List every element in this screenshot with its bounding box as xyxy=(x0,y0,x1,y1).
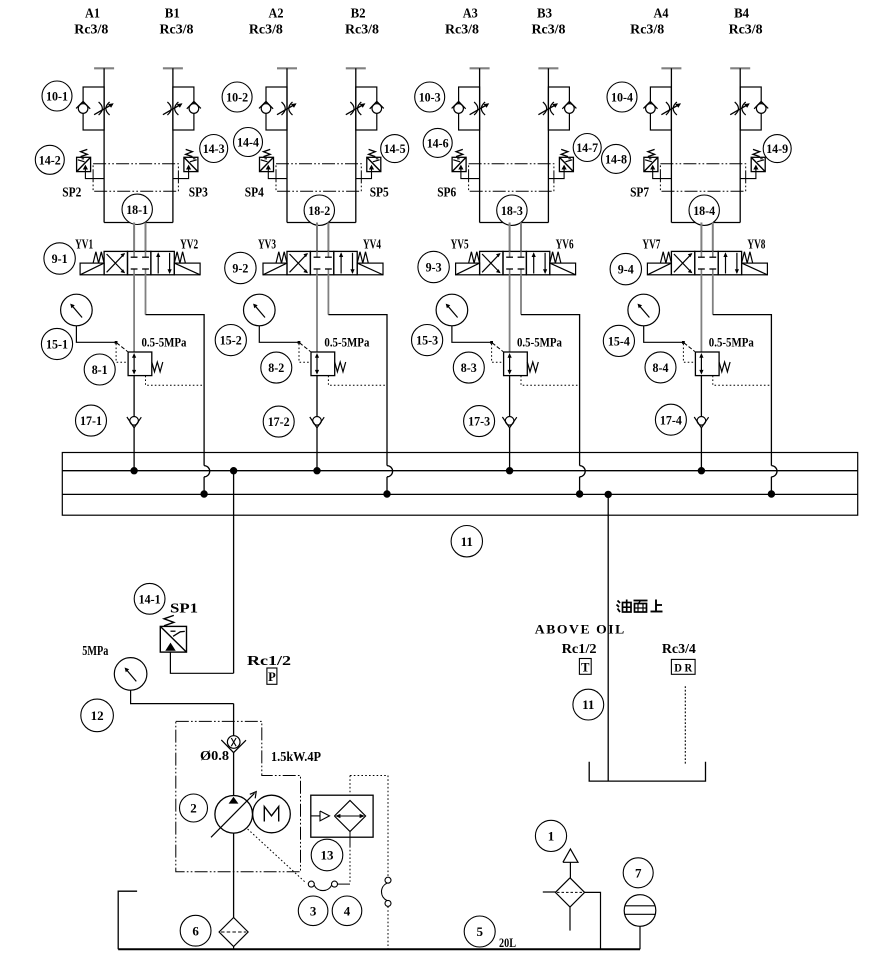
wire port B1 down to block 18-1 xyxy=(172,68,174,222)
tank 5 left wall with lip xyxy=(118,891,137,949)
wire reducing valve 8-4 to check valve 17-4 xyxy=(700,376,702,417)
flow control valve 10-4 pair (B side: throttle + check) xyxy=(730,87,768,130)
wire port A4 down to block 18-4 xyxy=(670,68,672,222)
svg-text:YV8: YV8 xyxy=(747,236,765,251)
svg-text:14-6: 14-6 xyxy=(427,136,449,151)
svg-text:SP1: SP1 xyxy=(170,602,198,617)
variable displacement pump 2 xyxy=(211,792,256,838)
pressure switch 14-5 (SP5) xyxy=(356,149,381,178)
pilot dotted line above block 13 xyxy=(349,776,351,796)
svg-text:Rc1/2: Rc1/2 xyxy=(247,653,291,668)
wire stub B to valve 9-1 xyxy=(145,223,147,252)
wire stub A to valve 9-4 xyxy=(700,223,702,252)
port A3 Rc3/8 label xyxy=(445,7,479,37)
port B2 connection tick xyxy=(346,67,366,69)
svg-text:SP5: SP5 xyxy=(370,185,389,200)
drain pilot line (dotted) from 8-1 to T line xyxy=(146,376,205,386)
svg-text:15-3: 15-3 xyxy=(416,333,438,348)
label circle 8-2 xyxy=(261,352,292,383)
svg-text:8-2: 8-2 xyxy=(268,360,284,375)
svg-text:8-3: 8-3 xyxy=(461,360,477,375)
wire P from valve 9-1 to reducing valve 8-1 xyxy=(133,275,135,352)
pressure switch 14-4 (SP4) xyxy=(260,149,288,178)
wire T crossing jump over P rail xyxy=(387,466,393,477)
label circle 17-1 xyxy=(76,405,107,436)
wire block 18-1 bottom edge xyxy=(104,222,173,224)
port B4 connection tick xyxy=(730,67,750,69)
flow control valve 10-2 pair (B side: throttle + check) xyxy=(346,87,384,130)
svg-text:YV3: YV3 xyxy=(258,236,276,251)
svg-text:Rc3/4: Rc3/4 xyxy=(662,641,696,656)
svg-text:9-2: 9-2 xyxy=(232,261,248,276)
svg-text:B1: B1 xyxy=(165,7,180,22)
wire filler suction stub into tank xyxy=(569,907,571,931)
manifold block 11 outline xyxy=(62,453,857,516)
flow control valve 10-2 (A side: throttle + check) xyxy=(259,87,297,130)
svg-text:17-3: 17-3 xyxy=(468,414,490,429)
orifice check valve (0.8mm) xyxy=(221,736,246,753)
wire check valve 17-3 to pressure rail xyxy=(509,428,511,471)
label circle 10-3 xyxy=(415,82,445,112)
wire port B2 down to block 18-2 xyxy=(355,68,357,222)
label circle 9-1 xyxy=(44,243,75,274)
flow control valve 10-4 (A side: throttle + check) xyxy=(643,87,681,130)
wire T into tank rail junction xyxy=(770,477,772,494)
label circle 14-7 xyxy=(573,134,601,162)
svg-text:18-2: 18-2 xyxy=(308,203,330,218)
svg-text:7: 7 xyxy=(635,865,642,880)
svg-text:Rc3/8: Rc3/8 xyxy=(532,22,566,37)
solenoid directional valve 9-1 body xyxy=(104,251,174,274)
wire T jog to tank rail xyxy=(713,315,772,466)
check valve 17-3 xyxy=(502,417,516,428)
pressure gauge 12 (5MPa) xyxy=(114,658,147,691)
solenoid directional valve 9-4 body xyxy=(671,251,741,274)
junction dot pump supply on P rail xyxy=(231,468,237,474)
port B1 Rc3/8 label xyxy=(160,7,194,37)
check valve 17-1 xyxy=(127,417,141,428)
junction measuring point xyxy=(115,341,118,344)
wire block 18-4 bottom edge xyxy=(671,222,740,224)
svg-text:YV5: YV5 xyxy=(451,236,469,251)
wire stub A to valve 9-1 xyxy=(133,223,135,252)
port B3 Rc3/8 label xyxy=(532,7,566,37)
pressure reducing valve 8-4 0.5-5MPa xyxy=(695,352,730,376)
label circle 10-2 xyxy=(222,82,252,112)
flow control valve 10-1 (A side: throttle + check) xyxy=(76,87,114,130)
label circle 5 xyxy=(464,916,495,947)
label circle 9-2 xyxy=(225,252,256,283)
circulation valve block 13 xyxy=(311,795,373,837)
port B3 connection tick xyxy=(538,67,558,69)
label circle 6 xyxy=(180,915,211,946)
svg-text:SP6: SP6 xyxy=(437,185,456,200)
label circle 3 xyxy=(298,896,328,926)
wire gauge 15-2 to measuring point xyxy=(259,326,299,343)
pressure reducing valve 8-3 0.5-5MPa xyxy=(504,352,539,376)
svg-text:A1: A1 xyxy=(85,7,100,22)
svg-text:1: 1 xyxy=(548,829,555,844)
junction measuring point xyxy=(682,341,685,344)
label circle 2 xyxy=(180,794,208,822)
pilot line measuring point to reducing valve 8-4 xyxy=(684,343,695,352)
pressure switch 14-3 (SP3) xyxy=(173,149,198,178)
pressure switch 14-2 (SP2) xyxy=(77,149,105,178)
wire T jog to tank rail xyxy=(146,315,205,466)
flow control valve 10-3 pair (B side: throttle + check) xyxy=(538,87,576,130)
svg-text:Rc3/8: Rc3/8 xyxy=(160,22,194,37)
pressure gauge 15-1 xyxy=(61,294,93,326)
svg-text:2: 2 xyxy=(190,801,197,816)
label circle 18-4 xyxy=(689,195,719,225)
wire port A1 down to block 18-1 xyxy=(103,68,105,222)
svg-text:1.5kW.4P: 1.5kW.4P xyxy=(271,749,321,764)
wire T into tank rail junction xyxy=(203,477,205,494)
wire block 18-2 bottom edge xyxy=(287,222,356,224)
pilot line (dotted) gauge to valve left side xyxy=(683,344,695,363)
svg-text:Rc3/8: Rc3/8 xyxy=(445,22,479,37)
suction filter 6 xyxy=(219,918,248,947)
svg-text:17-4: 17-4 xyxy=(660,412,682,427)
label circle 18-2 xyxy=(304,195,334,225)
svg-text:18-1: 18-1 xyxy=(126,202,148,217)
label circle 7 xyxy=(623,858,653,888)
manifold block boundary (dash-dot) for 18-4 xyxy=(660,164,745,192)
label circle 14-4 xyxy=(234,128,263,157)
label circle 10-1 xyxy=(42,81,72,111)
svg-text:SP2: SP2 xyxy=(62,185,81,200)
pilot dotted line block 13 to switch level xyxy=(349,846,351,884)
svg-text:8-4: 8-4 xyxy=(653,360,669,375)
svg-text:13: 13 xyxy=(321,848,335,863)
wire SP1 to P line xyxy=(170,652,233,673)
junction dot T return on tank rail xyxy=(605,491,611,497)
label circle 14-2 xyxy=(35,145,64,174)
switch 4 contacts xyxy=(381,877,391,906)
pilot line measuring point to reducing valve 8-2 xyxy=(300,343,311,352)
svg-text:0.5-5MPa: 0.5-5MPa xyxy=(324,336,370,350)
junction dot T rail xyxy=(201,491,207,497)
svg-text:14-1: 14-1 xyxy=(139,591,161,606)
junction measuring point xyxy=(490,341,493,344)
svg-text:15-4: 15-4 xyxy=(608,334,630,349)
port A4 connection tick xyxy=(661,67,681,69)
label circle 13 xyxy=(311,839,343,871)
label circle 15-4 xyxy=(603,325,634,356)
pressure gauge 15-3 xyxy=(436,294,468,326)
junction dot P rail xyxy=(131,468,137,474)
svg-text:SP3: SP3 xyxy=(189,185,208,200)
wire T jog to tank rail xyxy=(521,315,580,466)
junction dot P rail xyxy=(698,468,704,474)
svg-text:0.5-5MPa: 0.5-5MPa xyxy=(142,336,188,350)
wire T into tank rail junction xyxy=(579,477,581,494)
wire T crossing jump over P rail xyxy=(204,466,210,477)
label circle 18-3 xyxy=(497,195,527,225)
wire check valve 17-4 to pressure rail xyxy=(700,428,702,471)
valve 9-4 crossed-arrows position xyxy=(674,253,693,273)
svg-text:YV2: YV2 xyxy=(180,236,198,251)
wire gauge 15-3 to measuring point xyxy=(452,326,492,343)
air breather triangle of filler 1 xyxy=(563,849,578,862)
solenoid YV7 box xyxy=(647,252,671,275)
svg-text:Rc3/8: Rc3/8 xyxy=(345,22,379,37)
wire filler right connection to tank xyxy=(585,892,601,949)
svg-text:18-4: 18-4 xyxy=(693,203,715,218)
wire T jog to tank rail xyxy=(328,315,387,466)
wire reducing valve 8-2 to check valve 17-2 xyxy=(316,376,318,417)
svg-text:SP7: SP7 xyxy=(630,185,649,200)
label circle 8-4 xyxy=(645,352,676,383)
label circle 11 (manifold) xyxy=(451,526,482,557)
label circle 14-9 xyxy=(763,135,791,163)
svg-text:D R: D R xyxy=(674,661,692,675)
port DR marker box xyxy=(671,659,695,674)
wire port A2 down to block 18-2 xyxy=(286,68,288,222)
pressure reducing valve 8-1 0.5-5MPa xyxy=(128,352,163,376)
electric motor M xyxy=(253,795,291,833)
svg-text:17-2: 17-2 xyxy=(268,414,290,429)
pressure switch 14-9 (unlabeled) xyxy=(740,149,765,178)
solenoid directional valve 9-3 body xyxy=(480,251,550,274)
wire block 18-3 bottom edge xyxy=(480,222,549,224)
svg-text:ABOVE OIL: ABOVE OIL xyxy=(535,622,626,637)
junction dot T rail xyxy=(768,491,774,497)
wire port B4 down to block 18-4 xyxy=(739,68,741,222)
wire level gauge to tank xyxy=(639,926,641,949)
pilot dotted line from pump control to switch 3 xyxy=(248,829,305,882)
pressure gauge 15-4 xyxy=(628,294,660,326)
label circle 15-1 xyxy=(41,328,72,359)
wire reducing valve 8-3 to check valve 17-3 xyxy=(509,376,511,417)
solenoid YV5 box xyxy=(456,252,480,275)
manifold block boundary (dash-dot) for 18-1 xyxy=(93,164,178,192)
return tank symbol (above oil level) xyxy=(589,762,705,781)
manifold block boundary (dash-dot) for 18-3 xyxy=(469,164,554,192)
check valve 17-2 xyxy=(310,417,324,428)
wire P from valve 9-2 to reducing valve 8-2 xyxy=(316,275,318,352)
svg-text:14-4: 14-4 xyxy=(237,135,259,150)
svg-text:10-1: 10-1 xyxy=(46,89,68,104)
svg-text:14-3: 14-3 xyxy=(203,141,225,156)
wire gauge 15-4 to measuring point xyxy=(644,326,684,343)
port B4 Rc3/8 label xyxy=(729,7,763,37)
label circle 14-8 xyxy=(602,144,631,173)
pressure switch 14-6 (SP6) xyxy=(452,149,480,178)
svg-text:Ø0.8: Ø0.8 xyxy=(200,748,229,763)
wire port B3 down to block 18-3 xyxy=(547,68,549,222)
valve 9-3 crossed-arrows position xyxy=(482,253,501,273)
wire T stub below valve 9-2 xyxy=(327,275,329,315)
wire filler left stub xyxy=(543,891,556,893)
svg-text:YV1: YV1 xyxy=(75,236,93,251)
svg-text:6: 6 xyxy=(192,923,199,938)
pilot line (dotted) gauge to valve left side xyxy=(299,344,311,363)
label circle 14-3 xyxy=(200,135,228,163)
svg-text:10-4: 10-4 xyxy=(611,90,633,105)
flow control valve 10-1 pair (B side: throttle + check) xyxy=(163,87,201,130)
svg-text:Rc3/8: Rc3/8 xyxy=(630,22,664,37)
wire P from valve 9-4 to reducing valve 8-4 xyxy=(700,275,702,352)
svg-text:20L: 20L xyxy=(499,935,516,950)
svg-text:0.5-5MPa: 0.5-5MPa xyxy=(517,336,563,350)
wire T into tank rail junction xyxy=(386,477,388,494)
svg-text:15-1: 15-1 xyxy=(46,337,68,352)
valve 9-4 closed-centre position port stubs xyxy=(698,251,716,274)
wire T crossing jump over P rail xyxy=(771,466,777,477)
svg-text:B2: B2 xyxy=(351,7,366,22)
tank rail T inside manifold xyxy=(62,493,857,495)
solenoid YV6 box xyxy=(550,252,576,275)
wire pump outlet down to filter 6 xyxy=(233,833,235,918)
wire T stub below valve 9-1 xyxy=(145,275,147,315)
wire T stub below valve 9-4 xyxy=(712,275,714,315)
wire gauge 12 to P line xyxy=(131,690,234,703)
label circle 18-1 xyxy=(122,194,152,224)
wire check valve 17-1 to pressure rail xyxy=(133,428,135,471)
solenoid directional valve 9-2 body xyxy=(287,251,357,274)
solenoid YV1 box xyxy=(80,252,104,275)
svg-text:11: 11 xyxy=(461,534,473,549)
pilot line measuring point to reducing valve 8-1 xyxy=(117,343,128,352)
svg-text:Rc1/2: Rc1/2 xyxy=(562,641,597,656)
label circle 14-6 xyxy=(423,128,452,157)
port B2 Rc3/8 label xyxy=(345,7,379,37)
svg-text:SP4: SP4 xyxy=(245,185,264,200)
port A2 connection tick xyxy=(277,67,297,69)
wire T stub below valve 9-3 xyxy=(520,275,522,315)
wire stub B to valve 9-4 xyxy=(712,223,714,252)
svg-text:14-9: 14-9 xyxy=(766,141,788,156)
pilot dotted line top run to switch 4 xyxy=(350,775,388,777)
pilot line measuring point to reducing valve 8-3 xyxy=(492,343,503,352)
label circle 4 xyxy=(332,896,362,926)
svg-text:Rc3/8: Rc3/8 xyxy=(249,22,283,37)
label circle 15-3 xyxy=(412,325,443,356)
wire reducing valve 8-1 to check valve 17-1 xyxy=(133,376,135,417)
label circle 9-4 xyxy=(610,253,641,284)
valve 9-3 closed-centre position port stubs xyxy=(506,251,524,274)
drain pilot line (dotted) from 8-2 to T line xyxy=(328,376,387,386)
svg-text:YV7: YV7 xyxy=(642,236,660,251)
junction dot P rail xyxy=(314,468,320,474)
wire pump supply riser P line xyxy=(233,471,235,674)
svg-text:9-4: 9-4 xyxy=(618,262,634,277)
svg-text:10-3: 10-3 xyxy=(419,90,441,105)
svg-text:A3: A3 xyxy=(463,7,478,22)
junction measuring point xyxy=(298,341,301,344)
port A3 connection tick xyxy=(470,67,490,69)
valve 9-1 closed-centre position port stubs xyxy=(131,251,149,274)
pressure rail P inside manifold xyxy=(62,470,857,472)
power unit boundary (dash-dot) xyxy=(176,721,301,871)
svg-text:8-1: 8-1 xyxy=(92,362,108,377)
wire orifice to pump xyxy=(233,753,235,796)
drain line DR (dotted) xyxy=(684,686,686,765)
valve 9-1 crossed-arrows position xyxy=(107,253,126,273)
svg-text:4: 4 xyxy=(344,903,351,918)
check valve 17-4 xyxy=(694,417,708,428)
pressure reducing valve 8-2 0.5-5MPa xyxy=(311,352,346,376)
pilot dotted line switch 4 to tank xyxy=(387,906,389,949)
label circle 9-3 xyxy=(418,251,449,282)
svg-text:14-8: 14-8 xyxy=(605,152,627,167)
pressure switch SP1 (14-1) xyxy=(160,615,186,652)
wire stub A to valve 9-3 xyxy=(509,223,511,252)
wire gauge 15-1 to measuring point xyxy=(76,326,116,343)
wire stub A to valve 9-2 xyxy=(316,223,318,252)
svg-text:Rc3/8: Rc3/8 xyxy=(729,22,763,37)
port T marker box xyxy=(579,659,591,675)
svg-text:15-2: 15-2 xyxy=(220,333,242,348)
tank 5 bottom line xyxy=(118,948,640,950)
port A1 Rc3/8 label xyxy=(74,7,108,37)
fluid level gauge xyxy=(624,895,656,927)
svg-text:5MPa: 5MPa xyxy=(82,643,108,658)
label circle 12 xyxy=(81,699,114,732)
label circle 1 xyxy=(535,820,566,851)
solenoid YV3 box xyxy=(263,252,287,275)
label text CJK you-mian-shang (above oil surface) xyxy=(617,600,663,613)
svg-text:B4: B4 xyxy=(734,7,749,22)
switch 3 contacts xyxy=(308,881,337,891)
valve 9-2 parallel-arrows position xyxy=(339,252,355,274)
label circle 14-1 xyxy=(134,583,165,614)
port A2 Rc3/8 label xyxy=(249,7,284,37)
wire check valve 17-2 to pressure rail xyxy=(316,428,318,471)
pilot line (dotted) gauge to valve left side xyxy=(492,344,504,363)
svg-text:17-1: 17-1 xyxy=(80,413,102,428)
svg-text:T: T xyxy=(581,661,590,675)
valve 9-2 crossed-arrows position xyxy=(290,253,309,273)
wire tank return line T xyxy=(607,494,609,780)
svg-text:0.5-5MPa: 0.5-5MPa xyxy=(709,336,755,350)
valve 9-4 parallel-arrows position xyxy=(723,252,739,274)
label circle 17-2 xyxy=(263,406,294,437)
label circle 8-3 xyxy=(453,352,484,383)
junction dot P rail xyxy=(507,468,513,474)
svg-text:P: P xyxy=(268,670,276,684)
drain pilot line (dotted) from 8-3 to T line xyxy=(521,376,580,386)
junction dot T rail xyxy=(577,491,583,497)
svg-text:A2: A2 xyxy=(269,7,284,22)
wire breather to filler filter xyxy=(569,862,571,878)
solenoid YV8 box xyxy=(742,252,768,275)
solenoid YV2 box xyxy=(174,252,200,275)
svg-text:5: 5 xyxy=(476,924,483,939)
filler air filter 1 diamond xyxy=(555,878,584,907)
svg-text:Rc3/8: Rc3/8 xyxy=(74,22,108,37)
svg-text:A4: A4 xyxy=(654,7,669,22)
wire port A3 down to block 18-3 xyxy=(479,68,481,222)
wire P line gauge junction to orifice xyxy=(233,704,235,736)
label circle 15-2 xyxy=(215,325,246,356)
wire T crossing jump over P rail xyxy=(580,466,586,477)
valve 9-3 parallel-arrows position xyxy=(532,252,548,274)
label circle 10-4 xyxy=(607,82,637,112)
svg-text:14-5: 14-5 xyxy=(384,141,406,156)
solenoid YV4 box xyxy=(357,252,383,275)
wire P from valve 9-3 to reducing valve 8-3 xyxy=(509,275,511,352)
svg-text:YV4: YV4 xyxy=(363,236,381,251)
manifold block boundary (dash-dot) for 18-2 xyxy=(276,164,361,192)
pilot dotted line down to switch 4 xyxy=(387,776,389,878)
label circle 17-4 xyxy=(655,404,686,435)
svg-text:14-2: 14-2 xyxy=(39,152,61,167)
svg-text:10-2: 10-2 xyxy=(226,90,248,105)
pressure switch 14-8 (SP7) xyxy=(644,149,672,178)
svg-text:B3: B3 xyxy=(537,7,552,22)
